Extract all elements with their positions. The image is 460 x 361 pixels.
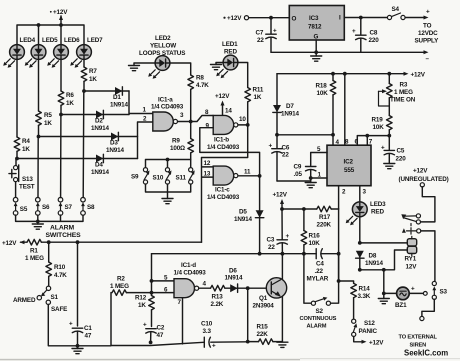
svg-text:10K: 10K (373, 124, 385, 131)
capacitor C10 3.3 (in rail) (201, 321, 248, 350)
svg-text:C5: C5 (397, 148, 405, 155)
IC3 7812 regulator (289, 6, 344, 41)
resistor R11 1K (245, 87, 264, 125)
wire IC3 output wire (249, 17, 290, 19)
node S10 top junction (166, 158, 170, 162)
svg-text:BZ1: BZ1 (395, 302, 407, 309)
label LED2 YELLOW LOOPS STATUS (139, 35, 185, 57)
capacitor C6 22 (269, 135, 290, 181)
ground main rail (72, 344, 83, 354)
node rail junctions (37, 23, 63, 27)
svg-text:1 MEG: 1 MEG (394, 89, 413, 96)
svg-text:D3: D3 (110, 140, 118, 147)
switch S8 (81, 91, 95, 215)
switch S3 (432, 281, 447, 299)
LED3 (346, 202, 367, 225)
svg-text:220: 220 (396, 156, 407, 163)
svg-text:MYLAR: MYLAR (307, 276, 329, 283)
wire IC1-a output to IC1-b pin 8 (178, 116, 214, 122)
wire trigger node line y=253.7 (152, 253, 339, 255)
svg-text:.22: .22 (315, 268, 324, 275)
svg-text:1K: 1K (66, 100, 74, 107)
op-amp gate IC1-b 1/4 CD4093 (205, 109, 246, 151)
wire top rail (17, 25, 84, 45)
svg-text:CONTINUOUS: CONTINUOUS (300, 316, 337, 322)
svg-text:1K: 1K (254, 94, 262, 101)
svg-text:14: 14 (225, 108, 232, 115)
wire pin 1 stub (309, 172, 327, 180)
diode D7 1N914 (273, 74, 300, 135)
node R10 junction (47, 240, 51, 244)
ground alarm switches (32, 221, 43, 229)
svg-text:12: 12 (204, 160, 211, 167)
label LED1 RED (222, 41, 238, 56)
svg-text:1K: 1K (22, 146, 30, 153)
svg-text:1 MEG: 1 MEG (110, 283, 129, 290)
svg-text:S13: S13 (22, 176, 33, 183)
resistor R14 3.3K (351, 283, 371, 319)
wire D2 line (61, 114, 96, 116)
capacitor C2 47 (143, 322, 165, 343)
node pin5 junction (150, 279, 154, 283)
resistor R17 220K (317, 206, 339, 228)
switch S6 (36, 137, 51, 215)
svg-text:+12V: +12V (413, 168, 428, 175)
diode D1 1N914 (110, 87, 129, 109)
svg-text:1N914: 1N914 (225, 275, 243, 282)
svg-text:47: 47 (157, 332, 164, 339)
resistor R6 1K (58, 91, 74, 115)
svg-text:+: + (212, 343, 216, 350)
capacitor C7 22 (256, 18, 278, 53)
svg-text:LED7: LED7 (87, 37, 103, 44)
svg-text:1/4 CD4093: 1/4 CD4093 (207, 144, 240, 151)
wire C6 to ground line (277, 180, 311, 182)
wire D1/D2 to pin1 (129, 91, 153, 115)
svg-text:TIME ON: TIME ON (390, 97, 416, 104)
svg-text:R12: R12 (135, 295, 147, 302)
wire S3 to external siren (420, 299, 435, 320)
svg-text:S5: S5 (20, 206, 28, 213)
wire D1 line (84, 90, 115, 92)
diode D4 1N914 (91, 154, 138, 176)
LED5 (25, 37, 58, 68)
svg-text:LED3: LED3 (370, 201, 386, 208)
svg-text:10K: 10K (317, 90, 329, 97)
wire R1 line to IC1-c feed (41, 241, 201, 243)
op-amp gate IC1-c 1/4 CD4093 (204, 160, 252, 201)
svg-text:R11: R11 (253, 87, 264, 94)
node D5 cathode junction (258, 252, 262, 256)
node C7 junction (269, 16, 273, 20)
svg-text:R13: R13 (212, 294, 224, 301)
svg-text:S8: S8 (87, 204, 95, 211)
buzzer BZ1 (384, 286, 427, 310)
wire R10 column (48, 242, 50, 262)
resistor R15 22K (248, 324, 283, 345)
wire IC1-b pin9 from IC1-c output (200, 128, 260, 176)
svg-text:+: + (273, 28, 277, 35)
svg-text:4.7K: 4.7K (196, 82, 209, 89)
resistor R19 10K (372, 116, 393, 136)
transistor Q1 2N3904 (253, 278, 287, 310)
svg-text:11: 11 (244, 169, 251, 176)
svg-text:LED5: LED5 (42, 37, 58, 44)
switch S12 PANIC (352, 319, 378, 336)
wire LED4 column (16, 59, 18, 137)
svg-text:YELLOW: YELLOW (150, 43, 176, 50)
node C2 rail junction (149, 341, 153, 345)
svg-text:1/4 CD4093: 1/4 CD4093 (207, 194, 240, 201)
capacitor C4 .22 MYLAR (307, 249, 329, 283)
wire +12V distribution line (282, 208, 317, 210)
svg-text:1N914: 1N914 (106, 147, 124, 154)
svg-text:LED6: LED6 (64, 37, 80, 44)
wire LED7 column (83, 59, 85, 67)
resistor R5 1K (36, 111, 53, 137)
svg-text:220K: 220K (317, 222, 332, 229)
svg-text:R7: R7 (89, 68, 97, 75)
svg-text:7812: 7812 (308, 24, 322, 31)
wire S4 to supply + (405, 9, 430, 20)
svg-text:S12: S12 (364, 320, 375, 327)
svg-text:22K: 22K (257, 331, 269, 338)
svg-text:22: 22 (268, 244, 275, 251)
capacitor C5 220 (381, 136, 406, 164)
svg-text:D4: D4 (95, 162, 103, 169)
wire unregulated feed to contact (421, 187, 435, 222)
svg-text:IC3: IC3 (309, 15, 319, 22)
svg-text:+: + (381, 145, 385, 152)
svg-text:TO: TO (423, 23, 432, 30)
label SeekIC.com watermark (404, 349, 448, 358)
node C1 junction (76, 240, 80, 244)
label +12V arming (2, 240, 17, 247)
wire LED1 to R11 (238, 63, 248, 88)
svg-text:1 MEG: 1 MEG (25, 255, 44, 262)
svg-text:1/4 CD4093: 1/4 CD4093 (174, 270, 207, 277)
wire IC1-d output (199, 287, 211, 289)
svg-text:+: + (352, 28, 356, 35)
svg-text:ALARM: ALARM (307, 324, 327, 330)
resistor R9 100ohm (170, 122, 194, 160)
svg-text:C8: C8 (370, 30, 378, 37)
resistor R12 1K (135, 295, 154, 327)
label LED3 RED (370, 201, 386, 216)
label minus terminal (426, 56, 430, 63)
svg-text:R16: R16 (309, 233, 321, 240)
svg-text:D2: D2 (95, 118, 103, 125)
svg-text:SUPPLY: SUPPLY (415, 38, 440, 45)
svg-text:1N914: 1N914 (91, 169, 109, 176)
svg-text:R18: R18 (316, 83, 328, 90)
svg-text:1N914: 1N914 (365, 260, 383, 267)
resistor R8 4.7K (188, 75, 209, 122)
svg-text:D7: D7 (286, 103, 294, 110)
svg-text:C1: C1 (84, 325, 92, 332)
svg-text:+12V: +12V (273, 192, 288, 199)
node pin8 junction (343, 72, 347, 76)
svg-text:+: + (411, 286, 415, 293)
wire D4 line (17, 158, 96, 160)
svg-text:S4: S4 (392, 6, 400, 13)
label +12V (UNREGULATED) (399, 168, 449, 187)
svg-text:S9: S9 (131, 174, 139, 181)
switch S9 (131, 168, 150, 185)
wire IC1-b output node (238, 123, 250, 127)
resistor R10 4.7K (46, 262, 67, 286)
svg-text:100Ω: 100Ω (170, 145, 185, 152)
svg-text:(UNREGULATED): (UNREGULATED) (399, 176, 449, 183)
svg-text:LED1: LED1 (222, 41, 238, 48)
switch S10 (153, 168, 172, 185)
wire LED5 column (38, 59, 40, 111)
node R8/R9 junction on pin3 wire (189, 120, 193, 124)
decorative bottom scan line (0, 358, 460, 360)
wire C1 column (77, 242, 79, 326)
wire D3 line (39, 136, 112, 138)
ground IC3 (311, 56, 322, 61)
svg-text:S2: S2 (316, 308, 324, 315)
node rail/ground junction (36, 220, 40, 224)
relay contacts (401, 214, 421, 233)
ground Q1 emitter / R15 (277, 342, 288, 347)
wire S9-S11 bottom rail (146, 184, 191, 192)
wire S12 to +12V stub (354, 337, 385, 347)
svg-text:RY1: RY1 (405, 256, 417, 263)
node pin6 junction (150, 291, 154, 295)
svg-text:D6: D6 (229, 268, 237, 275)
svg-text:SWITCHES: SWITCHES (46, 232, 82, 239)
svg-text:+: + (426, 9, 430, 16)
node R3 junction (387, 72, 391, 76)
wire alarm switch bottom rail (16, 215, 83, 221)
svg-text:+12V: +12V (411, 72, 426, 79)
svg-text:10K: 10K (309, 240, 321, 247)
wire pin 5 stub and C9 (311, 146, 327, 166)
svg-text:2.2K: 2.2K (211, 301, 224, 308)
wire contact to S3 (421, 231, 435, 282)
capacitor C8 220 (352, 18, 379, 53)
resistor R1 1 MEG (25, 239, 44, 262)
node C4 right junction (337, 252, 341, 256)
wire IC1-c output to D5 (238, 174, 262, 210)
wire LED2 to R8 (170, 63, 191, 75)
switch S2 CONTINUOUS ALARM (300, 254, 339, 330)
svg-text:D1: D1 (113, 94, 121, 101)
ground BZ1 (378, 293, 389, 303)
svg-text:R19: R19 (372, 117, 384, 124)
wire pin 14 stub (221, 101, 233, 117)
node R16/C4/S2 junction (302, 252, 306, 256)
svg-text:C10: C10 (201, 321, 213, 328)
svg-text:R10: R10 (54, 264, 66, 271)
node D2 junction (59, 113, 63, 117)
svg-text:IC1-a: IC1-a (158, 97, 173, 104)
op-amp gate IC1-a 1/4 CD4093 (143, 97, 185, 132)
wire coil top line (360, 242, 407, 244)
svg-text:D5: D5 (239, 209, 247, 216)
wire Q1 collector (281, 252, 285, 279)
wire D3/D4 to pin2 (138, 122, 153, 159)
svg-text:+12V: +12V (369, 340, 384, 347)
switch S5 (13, 197, 28, 215)
svg-text:1N914: 1N914 (281, 111, 299, 118)
svg-text:S10: S10 (153, 175, 164, 182)
svg-text:S1: S1 (51, 294, 59, 301)
diode D3 1N914 (106, 132, 138, 154)
svg-text:12VDC: 12VDC (418, 30, 438, 37)
svg-text:4.7K: 4.7K (54, 272, 67, 279)
svg-text:S7: S7 (65, 204, 73, 211)
op-amp gate IC1-d 1/4 CD4093 (164, 262, 207, 306)
svg-text:C3: C3 (267, 237, 275, 244)
svg-text:SeekIC.com: SeekIC.com (404, 349, 448, 358)
wire pin 7 to rail (182, 298, 184, 344)
label ALARM SWITCHES (46, 225, 82, 240)
resistor R13 2.2K (211, 285, 231, 308)
svg-text:2N3904: 2N3904 (253, 303, 275, 310)
capacitor C3 22 (267, 209, 290, 254)
svg-text:IC1-d: IC1-d (181, 262, 196, 269)
node Q1 base junction (246, 286, 250, 290)
svg-text:TEST: TEST (19, 184, 35, 191)
svg-text:10: 10 (239, 116, 246, 123)
svg-text:D8: D8 (369, 253, 377, 260)
IC2 555 timer (327, 139, 373, 186)
wire bottom rail left (78, 293, 204, 346)
relay coil RY1 12V (405, 236, 418, 270)
+12V supply label top-left (50, 9, 68, 16)
wire IC3 ground stub (314, 40, 318, 56)
node LED7/D1 junction (82, 89, 86, 93)
svg-text:555: 555 (344, 167, 355, 174)
svg-text:R9: R9 (172, 138, 180, 145)
svg-text:S11: S11 (176, 175, 187, 182)
wire coil bottom line (360, 250, 407, 270)
label +12V regulated output terminal (223, 15, 248, 22)
resistor R16 10K (301, 209, 320, 254)
ground LED2 (129, 63, 156, 71)
svg-text:LED4: LED4 (20, 37, 36, 44)
wire LED3 to D8 node (358, 216, 362, 245)
svg-text:R2: R2 (117, 276, 125, 283)
resistor R18 10K (316, 74, 336, 135)
svg-text:TO EXTERNAL: TO EXTERNAL (399, 335, 438, 341)
svg-text:C4: C4 (316, 261, 324, 268)
wire base node to C10/R15 rail (246, 288, 250, 343)
node BZ1 ground junction (382, 268, 386, 272)
svg-text:R6: R6 (66, 92, 74, 99)
resistor R4 1K (14, 137, 30, 159)
svg-text:1N914: 1N914 (234, 216, 252, 223)
wire +12V arrow to R1 (20, 240, 28, 244)
svg-text:+: + (69, 321, 73, 328)
svg-text:R3: R3 (400, 82, 408, 89)
svg-text:22: 22 (282, 152, 289, 159)
node D4 junction (15, 157, 19, 161)
svg-text:+: + (269, 143, 273, 150)
wire pins 6/7 tie to R19/C5 (357, 134, 391, 145)
label +12V mid (273, 192, 288, 199)
svg-text:RED: RED (371, 209, 384, 216)
capacitor C9 .05 (294, 164, 316, 182)
svg-text:1K: 1K (138, 302, 146, 309)
svg-text:22: 22 (257, 37, 264, 44)
ground pin1/C9/C6 (305, 178, 316, 188)
svg-text:1/4 CD4093: 1/4 CD4093 (151, 104, 184, 111)
LED7 (70, 37, 103, 68)
diode D6 1N914 (225, 268, 267, 293)
wire +12V rail mid-right (277, 72, 426, 79)
svg-text:+12V: +12V (227, 15, 242, 22)
switch S7 (58, 115, 72, 215)
svg-text:ALARM: ALARM (50, 225, 74, 232)
wire Q1 emitter to ground (281, 297, 283, 342)
resistor R2 1 MEG (110, 276, 152, 296)
wire relay dashed link (410, 224, 412, 237)
svg-text:+: + (143, 322, 147, 329)
label TO EXTERNAL SIREN (399, 335, 438, 349)
wire to S13 (15, 159, 17, 166)
svg-text:R8: R8 (196, 75, 204, 82)
svg-text:IC1-b: IC1-b (214, 137, 229, 144)
svg-text:3.3: 3.3 (203, 328, 212, 335)
diode D5 1N914 (234, 209, 264, 254)
svg-text:IC2: IC2 (344, 159, 354, 166)
svg-text:1N914: 1N914 (110, 102, 128, 109)
label TO 12VDC SUPPLY (415, 23, 440, 45)
wire +12V arrow to rail (280, 199, 284, 211)
LED6 (47, 37, 80, 68)
wire IC3 input wire (344, 17, 387, 19)
svg-text:O: O (292, 16, 297, 23)
svg-text:S6: S6 (42, 204, 50, 211)
svg-text:220: 220 (369, 37, 380, 44)
wire LED6 column (60, 59, 62, 91)
LED4 (3, 37, 35, 68)
wire BZ1 ground column (382, 270, 386, 296)
LED2 (148, 56, 170, 79)
wire +12V stub to rail (59, 15, 63, 25)
svg-text:R4: R4 (22, 138, 30, 145)
wire D7/R18 to pin4 line (275, 133, 339, 146)
svg-text:S3: S3 (440, 289, 448, 296)
svg-text:C9: C9 (294, 164, 302, 171)
switch S11 (176, 168, 195, 185)
svg-text:R5: R5 (44, 112, 52, 119)
svg-text:SAFE: SAFE (51, 306, 67, 313)
svg-text:C7: C7 (256, 30, 264, 37)
svg-text:PANIC: PANIC (359, 328, 378, 335)
label +12V at IC1-b pin 14 (215, 93, 230, 100)
ground LED1 (211, 63, 224, 70)
wire S13 to S5 (15, 182, 17, 198)
svg-text:IC1-c: IC1-c (215, 187, 230, 194)
svg-text:12V: 12V (406, 264, 418, 271)
resistor R7 1K (81, 67, 97, 91)
wire pin 2 column down (338, 209, 340, 254)
wire S1 to bottom rail (48, 305, 77, 346)
svg-text:+12V: +12V (2, 240, 17, 247)
wire IC1-b out to IC1-c pins 12/13 (202, 125, 248, 242)
capacitor C1 47 (69, 321, 92, 346)
svg-text:ARMED: ARMED (13, 297, 36, 304)
switch S1 ARMED/SAFE (13, 286, 67, 313)
svg-text:13: 13 (204, 171, 211, 178)
wire IC1-d input column (152, 254, 175, 295)
ground loop switches (162, 192, 173, 204)
